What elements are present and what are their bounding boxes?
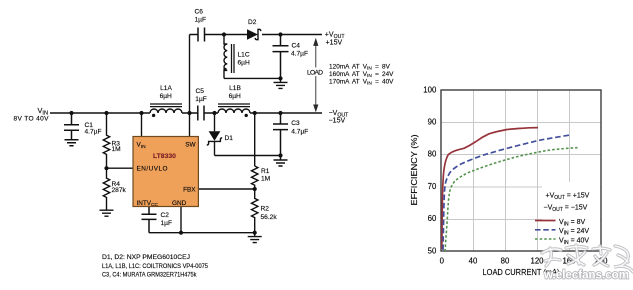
capacitor C4 xyxy=(273,35,289,79)
svg-text:C4: C4 xyxy=(292,42,301,49)
svg-text:L1C: L1C xyxy=(238,52,250,59)
svg-text:1µF: 1µF xyxy=(195,17,207,24)
diode D1 xyxy=(207,113,222,156)
wire: GND pin riser xyxy=(180,207,182,233)
svg-text:6µH: 6µH xyxy=(160,93,172,100)
svg-text:50: 50 xyxy=(428,246,437,255)
x axis labels xyxy=(440,257,609,266)
svg-text:4.7µF: 4.7µF xyxy=(291,128,308,135)
ground top section xyxy=(274,78,288,88)
svg-text:80: 80 xyxy=(501,257,510,266)
node dot R2 bottom / ground rail xyxy=(253,231,257,235)
ground below C1 xyxy=(65,140,79,146)
node dot SW/C6/L1A/C5 junction xyxy=(187,111,191,115)
capacitor C6 xyxy=(198,28,205,42)
phase dot L1C xyxy=(223,68,226,71)
svg-text:C3, C4: MURATA GRM32ER71H475k: C3, C4: MURATA GRM32ER71H475k xyxy=(102,272,197,279)
legend entry VIN=8V xyxy=(535,220,556,222)
legend entry VIN=24V xyxy=(535,229,556,231)
svg-text:56.2k: 56.2k xyxy=(261,214,278,221)
wire: L1C bottom to C4 bottom xyxy=(224,77,281,79)
node dot top ground junction xyxy=(278,76,282,80)
svg-text:6µH: 6µH xyxy=(229,93,241,100)
wire: EN/UVLO to divider xyxy=(107,167,134,169)
svg-text:80: 80 xyxy=(428,150,437,159)
wire: top +VOUT rail xyxy=(190,34,323,36)
ground mid section xyxy=(274,156,288,167)
svg-text:C6: C6 xyxy=(195,9,204,16)
svg-text:1µF: 1µF xyxy=(195,96,207,103)
svg-text:40: 40 xyxy=(469,257,478,266)
node dot R3/R4/EN junction xyxy=(104,166,108,170)
svg-text:100: 100 xyxy=(423,85,437,94)
svg-text:+15V: +15V xyxy=(326,39,343,46)
inductor L1B xyxy=(218,104,250,113)
resistor R2 xyxy=(252,189,258,233)
wire: -VOUT branch down to R1 xyxy=(254,113,256,166)
svg-text:L1A, L1B, L1C: COILTRONICS VP4: L1A, L1B, L1C: COILTRONICS VP4-0075 xyxy=(102,263,208,270)
svg-text:6µH: 6µH xyxy=(238,59,250,66)
resistor R1 xyxy=(252,166,258,189)
svg-text:287k: 287k xyxy=(112,187,127,194)
svg-text:1M: 1M xyxy=(112,146,121,153)
capacitor C5 xyxy=(198,106,204,121)
resistor R3 xyxy=(103,113,109,168)
node dot C3 bottom / ground xyxy=(278,153,282,157)
svg-text:0: 0 xyxy=(440,257,445,266)
svg-text:4.7µF: 4.7µF xyxy=(85,129,102,136)
node dot C3 top / -VOUT rail xyxy=(278,111,282,115)
wire: VIN pin riser xyxy=(141,113,143,137)
svg-text:90: 90 xyxy=(428,118,437,127)
ground below R4 xyxy=(100,210,114,216)
wire: vertical C6/SW riser xyxy=(189,35,191,137)
node dot GND pin / rail xyxy=(179,231,183,235)
svg-text:120: 120 xyxy=(530,257,544,266)
svg-text:R1: R1 xyxy=(261,168,270,175)
svg-text:w.elecfans.com: w.elecfans.com xyxy=(543,267,629,281)
svg-text:GND: GND xyxy=(172,200,187,207)
node dot L1B right / -VOUT branch xyxy=(253,111,257,115)
resistor R4 xyxy=(103,168,109,209)
svg-text:1M: 1M xyxy=(261,175,270,182)
curve VIN=40V (green dashed) xyxy=(445,148,578,252)
svg-text:170mA AT VIN = 40V: 170mA AT VIN = 40V xyxy=(329,78,394,86)
curve VIN=8V (red solid) xyxy=(442,128,538,249)
svg-text:C2: C2 xyxy=(161,212,170,219)
svg-text:D1, D2: NXP PMEG6010CEJ: D1, D2: NXP PMEG6010CEJ xyxy=(102,254,190,261)
curve VIN=24V (blue dashed) xyxy=(443,135,570,250)
efficiency chart xyxy=(410,85,608,276)
capacitor C2 xyxy=(142,207,157,233)
svg-text:C5: C5 xyxy=(196,88,205,95)
chart gridlines xyxy=(441,90,601,251)
svg-text:L1B: L1B xyxy=(229,85,241,92)
capacitor C1 xyxy=(64,113,79,139)
phase dot L1B xyxy=(245,114,248,117)
svg-text:D2: D2 xyxy=(248,19,257,26)
inductor L1C xyxy=(224,35,234,79)
wire: D1 cathode to ground rail xyxy=(215,155,281,157)
svg-text:70: 70 xyxy=(428,182,437,191)
inductor L1A xyxy=(150,104,182,113)
label LOAD xyxy=(306,68,324,77)
svg-text:L1A: L1A xyxy=(160,85,172,92)
wire: main input rail segments xyxy=(50,112,322,114)
svg-text:EFFICIENCY (%): EFFICIENCY (%) xyxy=(410,134,419,205)
svg-text:D1: D1 xyxy=(225,135,234,142)
load arrow xyxy=(314,39,318,111)
capacitor C3 xyxy=(273,113,288,156)
node dot C1/rail xyxy=(69,111,73,115)
y axis labels xyxy=(423,85,437,255)
svg-text:1µF: 1µF xyxy=(161,220,173,227)
svg-text:LT8330: LT8330 xyxy=(153,153,176,160)
node dot VIN pin riser xyxy=(139,111,143,115)
wire: bottom ground rail xyxy=(149,232,255,234)
wire: FBX pin to divider xyxy=(198,188,254,190)
node dot R3/rail xyxy=(104,111,108,115)
svg-text:R2: R2 xyxy=(261,206,270,213)
svg-text:8V TO 40V: 8V TO 40V xyxy=(14,116,50,123)
legend entry VIN=40V xyxy=(535,238,556,240)
svg-text:EN/UVLO: EN/UVLO xyxy=(137,166,168,173)
node dot D2/C4 junction xyxy=(278,32,282,36)
svg-text:4.7µF: 4.7µF xyxy=(291,51,308,58)
svg-text:C3: C3 xyxy=(291,120,300,127)
phase dot L1A xyxy=(152,114,155,117)
node dot C5/L1B/D1 junction xyxy=(212,111,216,115)
diode D2 xyxy=(247,29,261,39)
svg-text:LOAD: LOAD xyxy=(307,70,323,77)
svg-text:SW: SW xyxy=(185,142,196,149)
node dot FBX junction xyxy=(253,187,257,191)
svg-text:FBX: FBX xyxy=(183,187,196,194)
ground below R2 xyxy=(248,233,262,243)
watermark elecfans glyphs xyxy=(542,245,633,272)
node dot C6/L1C/D2 junction xyxy=(222,32,226,36)
op-amp U1 LT8330 IC body xyxy=(133,137,198,207)
chart border xyxy=(441,90,601,251)
legend white background xyxy=(542,182,600,247)
svg-text:−15V: −15V xyxy=(329,118,346,125)
svg-text:60: 60 xyxy=(428,214,437,223)
